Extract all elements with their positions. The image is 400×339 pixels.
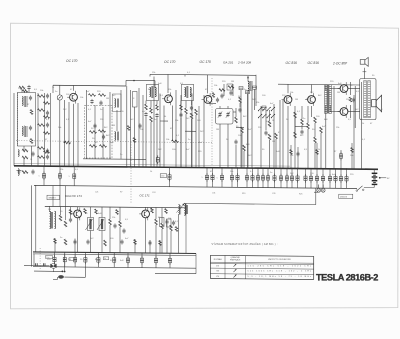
table header rule [210,262,313,263]
resistor R42 [109,219,112,225]
svg-text:1M: 1M [48,209,51,211]
svg-text:C39: C39 [272,193,275,195]
capacitor C16 [179,113,182,115]
resistor R8 [89,94,96,97]
wire [109,207,111,219]
wire [23,146,25,151]
thin rail above bus [14,164,290,167]
table row rule [210,268,313,269]
electrolytic C51 [316,169,318,188]
IF coil L5 [115,132,116,141]
resistor R31 [301,119,304,125]
switch contact S6 [263,114,266,117]
wire [86,90,88,159]
switch contact S3 [267,107,270,110]
resistor R17 [150,116,153,122]
switch contact S5 [259,114,262,117]
transistor T2 OC170 [165,95,173,103]
wire [180,95,182,167]
diode GA208 [246,91,250,94]
wire [219,106,221,109]
Tr2 primary winding [364,81,367,118]
osc coupling cluster [219,89,225,92]
svg-text:R19: R19 [242,193,245,195]
capacitor C15 [155,114,158,116]
svg-text:OC 171: OC 171 [139,194,150,198]
electrolytic C32 [73,166,75,185]
wire [153,77,155,168]
svg-text:2-GA 208: 2-GA 208 [237,61,251,65]
electrolytic C56 [346,169,348,188]
svg-text:C21: C21 [95,192,98,194]
sub wire [54,238,56,252]
capacitor C11 [99,101,102,103]
coil L3 [22,171,28,174]
wire [138,88,140,167]
table outer border [210,255,313,279]
svg-text:OC 170: OC 170 [164,60,176,64]
wire [90,207,92,218]
wire [163,106,165,168]
resistor R44 [155,219,158,225]
wire [31,146,33,166]
electrolytic C36 [221,168,223,187]
svg-text:OC 170: OC 170 [66,59,78,63]
resistor R12 [90,145,97,148]
subcircuit lower rail [33,267,196,269]
resistor R4 [38,109,45,112]
switch contact S2 [263,107,266,110]
pot P2 [99,218,105,231]
plug bowtie J1 [50,264,56,268]
capacitor C10 [90,100,93,102]
electrolytic C68 [155,253,157,268]
svg-text:KMITOČTY OSCILÁTORU: KMITOČTY OSCILÁTORU [268,258,291,261]
svg-text:5: 5 [292,178,293,180]
trimmer C1 [29,96,32,98]
transistor T4 OC816 [284,96,292,104]
electrolytic C61 [64,252,66,267]
mid resistor R47 [64,239,67,245]
svg-text:5,9 - 18,1 MHz 58 - 75 - 18: 5,9 - 18,1 MHz 58 - 75 - 18 MHz [248,276,312,278]
resistor R21 [195,109,198,115]
mid marks [127,126,130,131]
electrolytic C60 [54,252,56,267]
switch link dashed [39,248,41,270]
svg-text:OC 816: OC 816 [308,61,320,65]
internal rail [83,158,146,161]
svg-text:GA 201: GA 201 [223,60,234,64]
resistor R11 [99,130,106,133]
svg-text:5: 5 [232,177,233,179]
connector wire loop [315,188,317,205]
AGC resistor [172,140,179,143]
tone network marks [172,221,175,223]
svg-text:5: 5 [269,178,270,180]
resistor R23 [235,117,238,123]
svg-text:1M: 1M [295,99,298,101]
electrolytic C33 [169,167,171,186]
ferrite antenna box L1 [18,93,36,147]
capacitor C51 [113,224,116,226]
svg-text:5: 5 [247,178,248,180]
tone coil L8 [179,205,180,215]
lower supply rail [34,185,357,188]
electrolytic C49 [305,169,307,188]
wire [156,101,158,105]
resistor R43 [119,221,122,227]
svg-text:525 1605 kHz 518 - 162 - 2 k: 525 1605 kHz 518 - 162 - 2 kHz [248,271,312,273]
capacitor C20 [234,140,237,142]
svg-text:1M: 1M [272,141,275,143]
electrolytic C47 [291,169,293,188]
resistor R34 [314,137,317,143]
ground tick left [17,170,22,172]
capacitor C52 [122,229,125,231]
electrolytic C35 [212,168,214,187]
capacitor C4 [46,94,49,96]
power switch S9 [358,186,363,190]
electrolytic C37 [231,168,233,187]
resistor R29 [294,112,297,118]
electrolytic C54 [335,169,337,188]
transistor T7 OC80P [340,108,348,116]
electrolytic C34 [206,168,208,187]
resistor R3 [38,95,45,98]
svg-text:C30: C30 [161,176,164,178]
pot arrow [177,204,185,213]
table column rule [244,256,246,279]
resistor R2 [22,156,28,159]
svg-text:TESLA 2816B-2: TESLA 2816B-2 [316,272,379,282]
svg-text:VÝZNAM SCHEMATICKÝCH ZNAČEK: VÝZNAM SCHEMATICKÝCH ZNAČEK ( AM 801 ) : [212,243,278,246]
tone network box [160,218,165,227]
mid cap C54 [86,240,89,242]
wire [50,93,52,166]
electrolytic C46 [286,168,288,187]
top rail right [278,83,360,86]
svg-text:5: 5 [257,178,258,180]
wire [318,187,320,189]
electrolytic C38 [237,168,239,188]
resistor R20 [190,113,193,119]
electrolytic C52 [322,169,324,188]
switch contact S4 [271,107,274,110]
electrolytic C50 [310,169,312,188]
svg-text:1M: 1M [231,81,234,83]
electrolytic C42 [262,168,264,187]
volume pot P1 [88,218,94,231]
transistor T1 OC170 [70,93,78,101]
electrolytic C45 [280,168,282,187]
board label box [339,194,353,198]
resistor R35 [320,127,323,133]
subcircuit right edge [185,203,187,208]
svg-text:OC 170: OC 170 [200,60,212,64]
resistor R13 [100,145,107,148]
IF coil can [113,94,122,112]
trimmer C2 [29,126,32,128]
svg-text:5: 5 [201,177,202,179]
resistor R22 [239,97,242,103]
capacitor C3 [31,152,34,154]
wire [311,85,313,94]
svg-text:5: 5 [305,178,306,180]
resistor R45 [161,223,164,229]
wire [37,93,39,166]
electrolytic C30 [43,166,45,185]
value box [69,258,75,261]
resistor R46 [170,225,173,231]
resistor R10 [90,131,97,134]
wire [180,118,182,167]
AGC component [65,141,71,144]
antenna top cluster [19,86,25,89]
battery plus lead [379,177,381,179]
label KMIT box [47,195,60,199]
right col extra [290,150,293,155]
svg-text:1M: 1M [216,129,219,131]
coil L2 [18,150,19,157]
svg-text:1M: 1M [106,98,109,100]
capacitor C6 [46,123,49,125]
capacitor C5 [46,111,49,113]
Tr2 secondary winding [368,81,371,118]
IF coil L4 [115,99,116,108]
wire [145,101,147,105]
svg-text:R7: R7 [120,192,122,194]
wire [73,104,75,166]
mid cap C55 [120,240,123,242]
raised wire loop [125,80,127,86]
wire [240,90,242,168]
wire [63,100,65,166]
svg-text:6UA OC 171: 6UA OC 171 [65,194,82,198]
top rail mid [150,74,256,75]
battery B1 [372,172,378,174]
wire [31,185,33,266]
wire [44,93,46,166]
wire [209,103,216,105]
input transformer Tr3 [50,211,51,229]
electrolytic C55 [340,169,342,188]
svg-text:R25: R25 [299,193,302,195]
electrolytic C64 [97,253,99,268]
headphone icon [360,60,365,65]
sub mid extra [54,239,57,244]
svg-text:150 285 kHz 518 - 1622 kH: 150 285 kHz 518 - 1622 kHz [248,265,312,267]
wire riser [52,85,54,93]
svg-text:1M: 1M [68,259,71,261]
IF filter can [133,92,138,108]
IF transformer T3in [182,84,194,100]
capacitor C7 [46,149,49,151]
svg-text:5u: 5u [104,258,106,260]
electrolytic C66 [127,253,129,268]
chassis bus [14,166,378,170]
resistor R41 [64,221,67,227]
electrolytic C62 [74,252,76,267]
series capacitor Ca [35,263,37,266]
wire [161,207,163,223]
svg-text:C24: C24 [152,192,155,194]
wire [290,145,292,168]
diode GA201 [239,87,243,90]
oscillator coil L6 [248,81,249,91]
DIN connector [58,275,64,279]
resistor R16 [156,105,159,110]
resistor R18 [180,105,183,110]
diode GA208b [253,86,257,89]
input wire [24,264,50,266]
transistor T3 OC170 [204,96,212,104]
top rail stage1 [53,84,126,87]
electrolytic C31 [59,166,61,185]
capacitor C14 [144,113,147,115]
svg-text:5: 5 [341,179,342,181]
transistor T8 OC171 [74,210,82,218]
wire [287,84,289,93]
electrolytic C67 [141,253,143,268]
transistor T6 OC80P [340,85,348,93]
wire [52,186,54,207]
svg-text:2-OC 80P: 2-OC 80P [332,62,348,66]
wire [301,106,303,119]
svg-text:ROZSAH: ROZSAH [214,258,223,261]
value box [103,257,109,260]
driver transformer Tr1 [325,85,327,114]
svg-text:5: 5 [281,178,282,180]
wire [365,168,374,170]
mid resistor R48 [104,240,107,246]
resistor R14 [145,104,148,110]
electrolytic C48 [297,169,299,188]
wire [13,93,15,166]
resistor R9 [99,94,106,97]
osc trim [216,98,219,100]
table row rule [210,274,313,275]
resistor R24 [241,127,244,133]
svg-text:GRAMO: GRAMO [48,197,56,200]
electrolytic C53 [329,169,331,188]
resistor R26 [268,121,271,127]
resistor R5 [38,124,45,127]
resistor R1 [22,149,28,152]
resistor R25 [243,145,246,151]
capacitor C12 [93,124,96,126]
wire [126,86,128,167]
capacitor C50 [69,218,72,220]
electrolytic C41 [257,168,259,188]
wire riser [149,74,151,76]
antenna coil L1b [22,127,23,136]
resistor R30 [294,132,297,138]
svg-text:C31: C31 [212,193,215,195]
resistor R40 [59,215,62,221]
svg-text:5: 5 [216,177,217,179]
sub bus second line [33,254,196,256]
resistor R15 [150,108,153,113]
subcircuit top rail [45,206,186,207]
wire [325,85,327,91]
wire [64,276,85,278]
subcircuit bus [33,252,196,254]
capacitor C13 [102,135,105,137]
ecap above bus [156,158,159,162]
switch contact S7 [267,114,270,117]
wire [364,187,374,189]
tuning link dashed [16,141,212,143]
wire [195,254,197,274]
antenna core hatch [23,96,25,107]
value box [46,256,53,259]
wire [35,185,37,252]
gang link dashed vertical [211,78,213,166]
table column rule [224,255,226,278]
svg-text:OC 816: OC 816 [286,61,298,65]
jumper [160,120,168,122]
electrolytic C63 [84,252,86,267]
svg-text:5: 5 [330,178,331,180]
wire [34,270,63,272]
svg-text:5: 5 [38,176,39,178]
capacitor C53 [165,220,168,222]
dial lamp La1 [317,188,321,192]
trimmer capacitor C9 [57,95,62,100]
resistor R32 [307,123,310,129]
capacitor C21 [264,131,267,133]
electrolytic C40 [252,168,254,187]
wire [363,68,365,79]
wire [180,101,182,105]
variable capacitor C18a [218,113,221,115]
wire [215,109,217,125]
wire [269,140,271,168]
transistor T9 OC171 [142,210,150,218]
resistor R7 [38,156,45,159]
resistor R28 [275,133,278,139]
wire [68,102,70,166]
detector diode D1 [262,106,266,109]
svg-text:5: 5 [317,178,318,180]
electrolytic C39 [246,168,248,187]
resistor extra col [44,102,50,105]
wire [350,82,352,95]
svg-text:PŘEPÍNAČE: PŘEPÍNAČE [230,259,241,262]
resistor R33 [314,117,317,123]
wire [330,88,340,90]
svg-text:1M: 1M [337,92,340,94]
wire [59,100,61,166]
tuning gang C18 [216,109,234,125]
electrolytic C43 [267,168,269,187]
wire [145,207,147,210]
wire [49,207,51,213]
output transformer Tr2 [360,79,376,120]
wire [361,82,363,169]
speaker [372,100,377,107]
resistor R27 [268,134,271,140]
switch contact S1 [259,107,262,110]
IF module shield box [85,106,113,159]
capacitor C22 [300,130,303,132]
wire [255,75,257,106]
svg-text:5: 5 [69,176,70,178]
IF transformer T2in [147,84,159,100]
electrolytic C69 [169,253,171,268]
electrolytic C44 [274,168,276,187]
wire [109,92,111,159]
